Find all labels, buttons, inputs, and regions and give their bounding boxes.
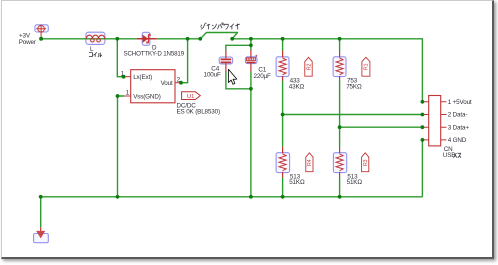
svg-text:3 Data+: 3 Data+ (448, 124, 470, 131)
CN pin stubs right (441, 102, 447, 140)
wire R3 bottom to bus (339, 177, 341, 196)
resistor R1 body (zigzag) (336, 51, 343, 81)
wire R4 bottom to bus (282, 177, 284, 196)
R2 name tag (305, 57, 313, 76)
wire R1 to R3 column (339, 80, 341, 146)
diode D SCHOTTKY-D 1N5819 (137, 35, 157, 43)
capacitor C4 100uF (221, 50, 232, 72)
label koiru (coil) katakana (89, 52, 102, 57)
highlight box: coil L (86, 32, 105, 44)
wire C1 column bottom to bus (250, 71, 252, 197)
wire Vout riser (181, 39, 188, 83)
mouse cursor (229, 69, 237, 84)
R4 name tag (306, 153, 313, 172)
svg-text:U1: U1 (187, 94, 194, 100)
wire Data- line (283, 114, 423, 116)
power symbol +3V (36, 25, 46, 39)
wire C1 column top (250, 39, 252, 50)
svg-text:4 GND: 4 GND (448, 137, 467, 144)
connector CN USB box (429, 96, 441, 146)
ground symbol (36, 227, 45, 238)
highlight box: capacitor C4 (219, 57, 232, 64)
svg-text:100uF: 100uF (204, 72, 221, 79)
U1 pin Lx stub (124, 76, 131, 78)
highlight box: resistor R4 body (276, 153, 290, 173)
wire Vss to bottom bus (118, 96, 125, 197)
wire bottom ground bus (41, 196, 423, 198)
label jumper wire katakana (200, 23, 239, 30)
capacitor C1 220uF (polarized) (246, 50, 257, 72)
wire top bus segment A (power to diode) (41, 38, 137, 40)
svg-text:2 Data-: 2 Data- (448, 112, 468, 119)
wire top bus segment B (diode to jumper) (157, 38, 201, 40)
svg-text:220µF: 220µF (254, 73, 272, 80)
wire R2 to R4 column (282, 80, 284, 146)
highlight box: ground symbol (34, 234, 49, 243)
U1 pin Vout stub (175, 82, 181, 84)
wire jumper bridge (200, 33, 237, 39)
highlight box: diode D (142, 32, 150, 45)
op-amp/regulator U1 box (DC/DC BL8530) (131, 70, 175, 103)
svg-text:Lx(Ext): Lx(Ext) (133, 74, 152, 81)
wire CN pin4 drop to bus (421, 140, 423, 197)
svg-text:Power: Power (19, 39, 36, 46)
wire R1 column top (339, 39, 341, 51)
svg-text:L: L (90, 46, 94, 53)
inductor L (coil) (86, 35, 104, 42)
wire top bus segment C with right drop to CN pin1 (232, 39, 422, 102)
svg-text:R3: R3 (363, 159, 369, 166)
highlight box: power symbol (35, 25, 48, 32)
svg-text:43KΩ: 43KΩ (289, 84, 305, 91)
svg-text:51KΩ: 51KΩ (289, 179, 305, 186)
highlight box: resistor R2 body (276, 57, 289, 77)
wire C4 bottom branch (226, 71, 251, 89)
highlight box: resistor R3 body (333, 153, 346, 173)
svg-text:USB: USB (443, 152, 456, 159)
U1 pin Vss stub (124, 95, 130, 97)
svg-text:SCHOTTKY-D 1N5819: SCHOTTKY-D 1N5819 (124, 50, 185, 57)
resistor R2 body (zigzag) (279, 51, 286, 81)
svg-text:Vss(GND): Vss(GND) (133, 93, 161, 100)
CN pin stubs left (423, 102, 429, 140)
svg-text:ES 0K (BL8530): ES 0K (BL8530) (177, 109, 220, 116)
R1 name tag (362, 57, 370, 76)
highlight box: capacitor C1 (245, 57, 257, 64)
highlight box: resistor R1 body (333, 57, 346, 77)
svg-text:1 +5Vout: 1 +5Vout (448, 99, 472, 106)
svg-text:75KΩ: 75KΩ (346, 84, 362, 91)
wire C4 top branch (226, 45, 251, 50)
resistor R3 body (zigzag) (336, 147, 343, 178)
U1 name tag (182, 92, 201, 100)
wire ground drop (40, 197, 42, 228)
wire Data+ line (340, 126, 423, 128)
svg-text:R2: R2 (306, 63, 312, 70)
svg-text:Vout: Vout (161, 80, 173, 87)
resistor R4 body (zigzag) (279, 147, 286, 178)
wire coil drop to U1 Lx pin (117, 39, 123, 77)
svg-text:R4: R4 (307, 159, 313, 166)
svg-text:51KΩ: 51KΩ (347, 179, 363, 186)
R3 name tag (362, 153, 369, 172)
wire R2 column top (282, 39, 284, 51)
svg-text:R1: R1 (364, 63, 370, 70)
